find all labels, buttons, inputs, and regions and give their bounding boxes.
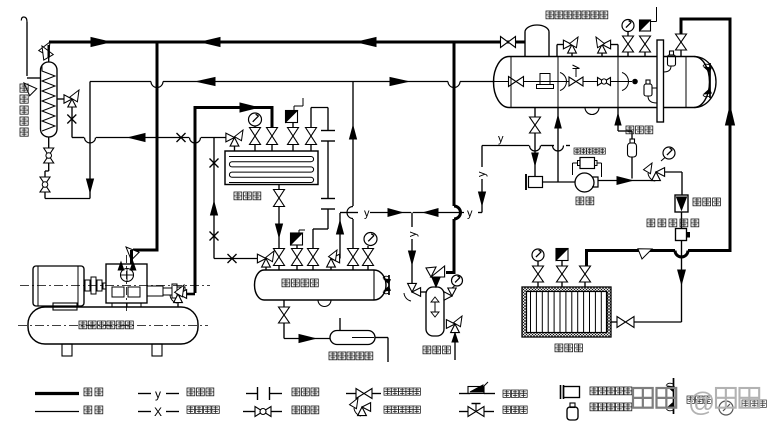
angle valve oil collector inlet left <box>408 283 417 292</box>
legend label pinghengguan <box>292 388 300 396</box>
LPR internal stand <box>540 74 550 85</box>
flow controller body <box>676 229 687 241</box>
LPR pilot valve <box>644 52 646 57</box>
legend level controller <box>567 407 578 420</box>
LPR drain valve <box>534 108 536 118</box>
pilot square receiver <box>291 233 303 245</box>
compressor right shaft <box>147 286 163 296</box>
legend solenoid valve <box>459 411 468 413</box>
svg-text:y: y <box>476 171 488 177</box>
arrow up on right riser <box>726 106 735 125</box>
arrow left on purge line <box>129 134 145 142</box>
LPR gauge valve <box>627 52 629 57</box>
arrow up receiver riser <box>337 221 344 234</box>
arrow right oil header <box>388 209 402 217</box>
compressor receiver tank <box>28 307 198 344</box>
wire column left vent <box>27 77 41 79</box>
check valve (zhihuifa) <box>675 195 688 212</box>
pressure gauge condenser <box>249 113 262 126</box>
X mark on column right branch <box>67 115 76 124</box>
valve on header near LPR <box>501 37 509 48</box>
label anzhuyeqi (ammonia receiver) <box>282 279 290 287</box>
legend label yewei kongzhiqi <box>590 403 598 411</box>
angle valve receiver to liquid main <box>327 259 336 268</box>
LPR internal cup1 <box>560 73 566 91</box>
svg-text:y: y <box>364 208 370 220</box>
label diyaxunhuanzhuyeqi <box>546 11 554 19</box>
label luogan yasuoji zu <box>79 321 87 329</box>
arrow down on x=90 <box>87 179 94 192</box>
evaporator plates <box>530 292 532 333</box>
legend angle stop valve <box>358 407 367 416</box>
condenser drain valve <box>278 185 280 190</box>
arrow on pump discharge angle valve <box>652 172 661 181</box>
evaporator gauge valve <box>537 282 539 287</box>
valve condenser 3 with pilot <box>292 145 294 151</box>
compressor discharge angle valve <box>174 294 183 303</box>
pilot square condenser <box>286 111 298 123</box>
LPR dome <box>525 25 549 57</box>
legend label yeweiji <box>687 396 694 403</box>
svg-text:X: X <box>154 405 162 419</box>
wire column right branch <box>57 98 64 100</box>
gauge valve on condenser <box>254 145 256 151</box>
evaporator pilot valve <box>561 282 563 287</box>
wire purge branch x=214 <box>213 138 215 259</box>
valve receiver equalizer <box>308 249 319 258</box>
receiver shell <box>255 270 387 300</box>
angle valve receiver purge inlet <box>257 254 266 263</box>
throttle valve 1 below column <box>48 137 50 148</box>
pressure gauge evaporator <box>532 249 544 261</box>
throttle valve evaporator <box>617 317 626 328</box>
label pangtongfa (bypass valve) <box>626 126 634 134</box>
label yachakongzhiqi <box>574 148 580 154</box>
svg-text:y: y <box>407 231 419 237</box>
legend balance pipe <box>246 393 258 395</box>
arrow left on header x=367 <box>357 38 376 47</box>
legend label anquanfa <box>503 390 510 397</box>
arrow left on liquid line <box>197 78 215 86</box>
balance pipe plates lower <box>321 198 335 200</box>
wire liquid line vertical x=90 <box>89 82 91 199</box>
LPR bypass valve <box>617 108 619 132</box>
air separator coil <box>42 66 55 131</box>
LPR internal valve <box>509 77 517 87</box>
compressor vertical centerline <box>126 255 128 312</box>
arrow right on liquid line <box>390 78 408 86</box>
label lengningqi (condenser) <box>234 192 242 200</box>
tank legs <box>62 344 72 356</box>
open arrow on evaporator return <box>638 249 652 259</box>
LPR inlet assembly 2 <box>617 45 619 57</box>
arrow left oil header <box>424 209 438 217</box>
wire thick oil-collector relief x=454 <box>453 42 456 206</box>
LPR internal centerline <box>494 81 632 83</box>
LPR right level gauge <box>709 63 711 98</box>
oil collector drain angle valve <box>446 320 455 329</box>
evaporator shell hatched <box>522 287 611 337</box>
ammonia pump <box>575 173 594 192</box>
oil collector shell <box>426 287 444 336</box>
legend level gauge <box>673 378 675 414</box>
compressor small arrows <box>118 262 124 270</box>
label jiyouqi (oil collector) <box>423 346 431 354</box>
oil collector gauge <box>452 275 463 286</box>
throttle valve 2 below column <box>40 177 50 185</box>
coupling <box>85 280 90 291</box>
wire liquid supply line y=81.5 <box>90 81 151 83</box>
wire thick LPR gas outlet to top right <box>680 21 683 36</box>
shaft centerline <box>20 285 210 287</box>
tank centerline <box>18 325 208 327</box>
legend label zhijiao jiezhifa <box>384 406 391 413</box>
LPR internal risers <box>510 57 512 108</box>
pump discharge line <box>598 180 656 182</box>
wire thick vertical x=157 to compressor <box>156 42 159 249</box>
label zhihuifa (check valve) <box>693 198 701 206</box>
arrow up on branch x=214 <box>211 202 218 215</box>
arrow down condenser drain <box>276 224 283 237</box>
wire discharge to check valve <box>665 171 682 173</box>
svg-text:y: y <box>498 133 504 145</box>
oil collector internals <box>434 301 436 317</box>
svg-text:y: y <box>155 387 161 401</box>
open arrow down on left vent <box>24 83 37 96</box>
label jinji xieanqi (emergency discharger) <box>329 352 337 360</box>
legend label yeguan <box>84 406 92 414</box>
wire evaporator supply <box>681 240 683 322</box>
arrow down LPR drain <box>532 153 538 165</box>
vertical label kongqifenliqi (air separator) <box>20 84 28 92</box>
legend label fangyouguan <box>187 388 195 396</box>
legend safety valve <box>459 393 470 395</box>
LPR inlet assembly 1 <box>556 45 558 57</box>
legend oil pipe <box>138 393 151 395</box>
angle valve at column right <box>64 95 72 103</box>
arrow right to emergency discharger <box>299 335 315 343</box>
LPR oil pot <box>585 108 599 115</box>
legend pressure gauge <box>719 401 733 415</box>
svg-text:@: @ <box>688 387 715 417</box>
legend throttle valve <box>243 411 255 413</box>
legend ammonia filter <box>560 385 562 399</box>
receiver drain valve <box>283 300 285 307</box>
legend gas pipe <box>35 392 79 395</box>
valve receiver gauge <box>363 249 374 258</box>
arrow up riser2 <box>350 126 357 139</box>
legend label zhitong jiezhifa <box>384 388 391 395</box>
valve receiver 3 with pilot <box>292 249 303 258</box>
legend label fangkongqiguan <box>187 406 194 413</box>
emergency ammonia discharger shell <box>330 331 375 345</box>
oil collector top valve <box>431 266 445 277</box>
arrow left on header x=212 <box>201 38 220 47</box>
wire jog to second valve <box>48 163 50 171</box>
wire oil header y=212.5 <box>346 212 358 214</box>
LPR pump return riser <box>557 108 559 183</box>
X mark on purge line <box>177 133 186 142</box>
pressure difference controller <box>580 158 595 169</box>
wire receiver riser2 to liquid line <box>352 219 354 249</box>
legend liquid pipe <box>35 411 79 413</box>
balance pipe plates upper <box>321 130 335 132</box>
wire main suction header y=42 <box>49 41 521 44</box>
LPR shell <box>493 57 709 108</box>
arrow down LPR oil line <box>479 192 486 205</box>
pressure gauge LPR <box>622 20 634 32</box>
wire thick evaporator return y=250.5 <box>688 249 732 252</box>
evaporator return valve <box>584 282 586 287</box>
air separator column <box>41 62 58 137</box>
wire LPR oil line x=482 <box>481 179 483 213</box>
LPR pump suction strainer <box>529 177 543 188</box>
gauge on discharge <box>663 147 675 159</box>
watermark laoshi <box>716 388 736 408</box>
svg-text:y: y <box>467 208 473 220</box>
LPR float switch lower <box>644 84 652 96</box>
motor <box>33 266 84 306</box>
compressor body <box>106 264 147 303</box>
arrow right on discharge <box>240 103 258 112</box>
valve receiver from condenser <box>274 249 285 258</box>
legend label yalibiao <box>742 400 749 407</box>
receiver level gauge <box>388 275 390 295</box>
condenser coil <box>229 157 314 183</box>
legend label anye guolvqi <box>590 387 598 395</box>
angle valve condenser inlet left <box>226 133 235 142</box>
LPR internal throttle <box>598 78 605 86</box>
legend air pipe <box>138 411 151 413</box>
legend label diancifa <box>503 406 510 413</box>
wire bottom drain of air separator <box>44 192 46 199</box>
wire oil branch to collector x=412 <box>411 213 413 228</box>
arrow down evaporator supply <box>678 270 686 284</box>
wire check valve to flow controller <box>681 212 683 229</box>
watermark zhihu <box>633 388 653 408</box>
valve condenser 4 equalizer <box>310 145 312 151</box>
open arrows at column top vent <box>39 42 50 56</box>
LPR mast standpipe <box>657 40 664 122</box>
valve receiver riser2 <box>348 249 359 258</box>
arrow down oil branch <box>409 251 416 264</box>
arrow right on header x=100 <box>91 38 110 47</box>
wire discharger outlet <box>375 337 388 339</box>
valve condenser gas inlet <box>271 145 273 151</box>
label anbeng (ammonia pump) <box>576 197 584 205</box>
legend label jieliufa <box>292 406 300 414</box>
condenser shell <box>225 151 318 185</box>
label liuliangkongzhiqi (flow controller) <box>647 219 655 227</box>
wire thick discharge riser x=195 <box>194 106 197 293</box>
label zhengfaqi (evaporator) <box>555 344 563 352</box>
LPR internal globe valve <box>569 77 576 86</box>
LPR float switch upper <box>668 55 676 66</box>
LPR internal cup2 <box>622 73 628 91</box>
LPR gas outlet valve <box>680 50 682 57</box>
open arrow compressor suction <box>126 247 139 260</box>
receiver oil pot <box>318 300 331 307</box>
legend stop valve <box>346 393 356 395</box>
X marks on branch x=214 <box>210 159 219 168</box>
wire air purge line y=137.5 <box>72 137 84 139</box>
legend label qiguan <box>84 388 92 396</box>
pressure gauge receiver <box>364 233 377 246</box>
